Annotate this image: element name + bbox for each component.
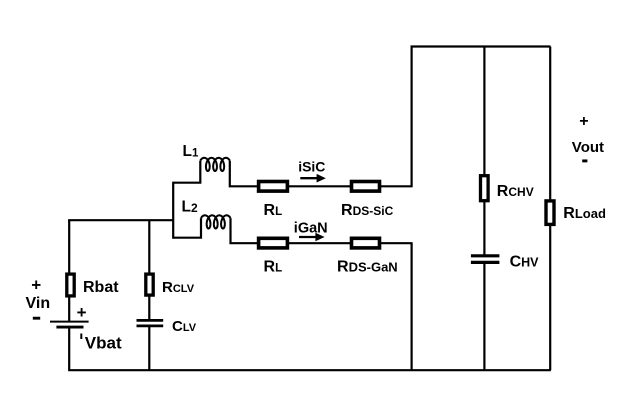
resistor RCHV bbox=[481, 176, 489, 201]
svg-text:L1: L1 bbox=[183, 143, 199, 160]
resistor RDS-GaN bbox=[352, 238, 380, 248]
label Vout minus bbox=[582, 159, 587, 162]
svg-text:RDS-GaN: RDS-GaN bbox=[337, 259, 398, 276]
resistor RLoad bbox=[546, 201, 554, 225]
svg-text:CLV: CLV bbox=[172, 318, 197, 335]
inductor L1 bbox=[200, 158, 230, 171]
resistor Rbat bbox=[67, 274, 74, 296]
wire GaN node down to bottom rail bbox=[411, 243, 413, 370]
battery tick mark bbox=[80, 334, 82, 340]
svg-text:RL: RL bbox=[264, 202, 283, 219]
svg-text:Rbat: Rbat bbox=[83, 279, 119, 296]
wire top rail bbox=[411, 45, 551, 47]
wire L1 right to node bbox=[230, 161, 413, 187]
svg-text:Vbat: Vbat bbox=[85, 334, 122, 353]
svg-text:iSiC: iSiC bbox=[298, 158, 325, 174]
wire trunk vertical bbox=[172, 182, 174, 239]
svg-text:CHV: CHV bbox=[510, 254, 540, 271]
svg-text:+: + bbox=[31, 276, 41, 295]
current arrow iSiC bbox=[300, 177, 318, 179]
label Vin minus bbox=[33, 317, 40, 320]
inductor L2 bbox=[201, 215, 231, 228]
svg-text:L2: L2 bbox=[182, 199, 198, 216]
svg-text:+: + bbox=[77, 303, 87, 322]
capacitor CLV bbox=[137, 320, 164, 326]
wire RCLV branch vertical bbox=[148, 220, 150, 370]
capacitor CHV bbox=[471, 256, 500, 263]
current arrow iGaN bbox=[299, 236, 317, 238]
svg-text:RLoad: RLoad bbox=[563, 205, 606, 222]
wire L1 left bbox=[173, 161, 200, 183]
wire L2 left bbox=[173, 218, 201, 238]
wire battery branch vertical bbox=[68, 220, 70, 371]
resistor RCLV bbox=[146, 274, 153, 295]
wire L2 right to node bbox=[231, 218, 413, 243]
svg-text:Vout: Vout bbox=[572, 139, 604, 156]
resistor RL (top) bbox=[259, 182, 288, 192]
battery Vbat plate short thick bbox=[56, 326, 83, 329]
svg-text:RCHV: RCHV bbox=[497, 183, 534, 200]
svg-text:RDS-SiC: RDS-SiC bbox=[341, 202, 394, 219]
resistor RDS-SiC bbox=[352, 182, 380, 192]
battery Vbat plate long bbox=[50, 321, 89, 323]
resistor RL (bottom) bbox=[259, 238, 288, 248]
wire bottom rail bbox=[68, 369, 551, 371]
wire RLoad branch vertical bbox=[549, 47, 551, 371]
wire SiC node up to top rail bbox=[411, 47, 413, 187]
svg-text:iGaN: iGaN bbox=[294, 220, 328, 236]
wire RCHV branch vertical bbox=[483, 47, 485, 371]
svg-text:Vin: Vin bbox=[26, 295, 51, 312]
svg-text:+: + bbox=[579, 113, 588, 130]
wire top-left horizontal bbox=[68, 219, 174, 221]
svg-text:RL: RL bbox=[264, 259, 283, 276]
svg-text:RCLV: RCLV bbox=[162, 279, 195, 296]
